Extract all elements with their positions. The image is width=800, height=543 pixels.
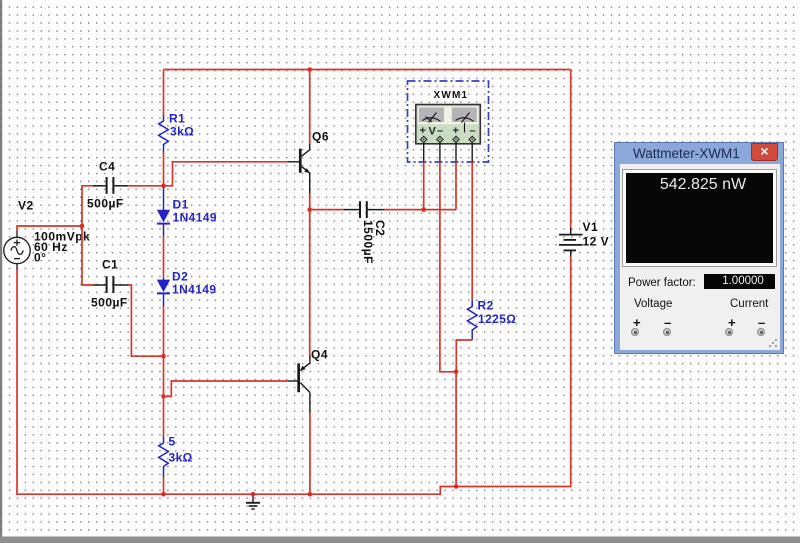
wire Q6 emitter to out node [309,194,311,210]
wattmeter display [626,173,773,263]
junction out node (Q6/Q4/C2) [307,207,312,212]
junction ground/rail [251,492,256,497]
junction rail/Q6 collector [307,67,312,72]
svg-text:500µF: 500µF [87,197,124,211]
wire node B to node C [163,356,165,396]
current plus sign [728,315,736,330]
svg-text:Q4: Q4 [311,348,328,362]
workspace bottom border strip [0,537,800,543]
svg-text:C4: C4 [99,160,115,174]
junction wattmeter V+ tap [421,207,426,212]
junction node D/ground rail [454,484,459,489]
svg-text:–: – [437,125,443,137]
svg-text:XWM1: XWM1 [434,90,469,101]
wattmeter voltage gauge needle [423,113,441,123]
svg-text:C1: C1 [102,258,118,272]
power factor value box [704,274,775,289]
capacitor C4 500uF [93,185,128,187]
wire C4 right lead to node A [128,185,164,187]
capacitor C1 500uF [93,284,128,286]
ac source V2 [4,231,30,270]
wire wattmeter V- down [440,162,456,372]
svg-text:D2: D2 [172,270,188,284]
wattmeter terminal 4 I- [469,136,475,142]
wattmeter terminal labels +V- +I- [420,125,476,138]
current minus sign [758,315,765,330]
wattmeter display bezel [622,169,777,267]
wire node A step to Q6 base [164,162,289,186]
wattmeter dialog window Wattmeter-XWM1 [614,142,784,354]
junction node C (Q4 base tap) [161,394,166,399]
svg-text:500µF: 500µF [91,296,128,310]
ground symbol [246,494,260,509]
svg-text:1500µF: 1500µF [361,220,375,264]
svg-text:V1: V1 [583,220,599,234]
svg-text:3kΩ: 3kΩ [170,125,194,139]
junction node D (R2/V-) [454,370,459,375]
svg-text:1225Ω: 1225Ω [478,312,516,326]
wattmeter pin stubs [424,143,473,162]
svg-text:1N4149: 1N4149 [172,283,216,297]
wire V2 minus to ground rail [17,257,571,495]
wattmeter terminal 3 I+ [453,136,459,142]
wattmeter terminal 1 V+ [421,136,427,142]
svg-text:5: 5 [169,435,176,449]
wire wattmeter V+ to out node [423,162,425,210]
wire Q6 collector to rail [309,70,311,145]
wire node C step to Q4 base [164,381,289,396]
voltage plus sign [633,315,641,330]
current plus terminal [725,328,733,336]
svg-text:+: + [420,125,426,137]
svg-text:1N4149: 1N4149 [173,211,217,225]
svg-text:R1: R1 [169,112,185,126]
wire V2 plus to C-node [17,226,82,231]
wire top power rail [164,69,571,71]
voltage plus terminal [631,328,639,336]
workspace left border strip [0,0,2,543]
wire wattmeter I+ down [455,162,457,210]
resistor R2 1225Ohm [467,300,477,340]
dialog title [633,146,740,161]
svg-text:3kΩ: 3kΩ [169,451,193,465]
junction node A (R1/C4/D1/base wire) [161,184,166,189]
wire out node to Q4 emitter [309,210,311,356]
voltage section label [634,298,672,310]
wire D2 to node B [163,306,165,356]
current section label [730,298,768,310]
svg-text:–: – [470,125,476,137]
wire D1 to D2 [163,236,165,278]
wattmeter current gauge needle [456,113,474,133]
wire C2 to wattmeter V+ node [384,209,456,211]
resistor R1 3kOhm [159,115,169,152]
wire R5 bottom to ground rail [163,477,165,494]
svg-text:12 V: 12 V [583,235,610,249]
transistor Q6 (NPN) [288,144,310,194]
junction node B (D2/C1) [161,354,166,359]
svg-text:R2: R2 [478,299,494,313]
diode D2 1N4149 [157,278,170,306]
wire wattmeter I- to R2 [471,162,473,301]
svg-text:+: + [453,125,459,137]
power factor label [628,277,696,289]
junction R5/ground rail [161,492,166,497]
svg-text:V2: V2 [18,199,34,213]
diode D1 1N4149 [157,187,170,236]
wire R1 bottom to node A [163,152,165,187]
resistor 5 3kOhm [159,437,169,477]
current minus terminal [757,328,765,336]
svg-text:0°: 0° [34,251,46,265]
wire V1 top to rail [570,70,572,229]
wire C node down to C1 [82,226,93,285]
wire node C down to R5 [163,396,165,437]
svg-text:D1: D1 [173,198,189,212]
svg-text:Q6: Q6 [312,130,329,144]
svg-text:V: V [429,126,437,138]
wire R1 top to rail [163,70,165,116]
wire R2 bottom to node D [456,340,472,372]
battery V1 12V [559,228,583,257]
wire C4 left to V2 node [82,186,93,226]
wattmeter terminal 2 V- [437,136,443,142]
dialog client area [620,164,780,350]
dialog close button [751,143,778,161]
junction V2/C4/C1 node [80,224,85,229]
junction Q4 collector/ground rail [308,492,313,497]
wire node D to ground rail [455,372,457,487]
transistor Q4 (PNP) [288,356,310,412]
voltage minus sign [664,315,671,330]
voltage minus terminal [663,328,671,336]
wire C1 right lead to D2 node [128,285,164,356]
wire Q4 collector to ground rail [309,412,311,494]
resize grip [768,338,778,348]
capacitor C2 1500uF [310,209,344,211]
wattmeter XWM1 selection box (dashed) [408,81,489,162]
wattmeter XWM1 instrument body [416,105,481,144]
